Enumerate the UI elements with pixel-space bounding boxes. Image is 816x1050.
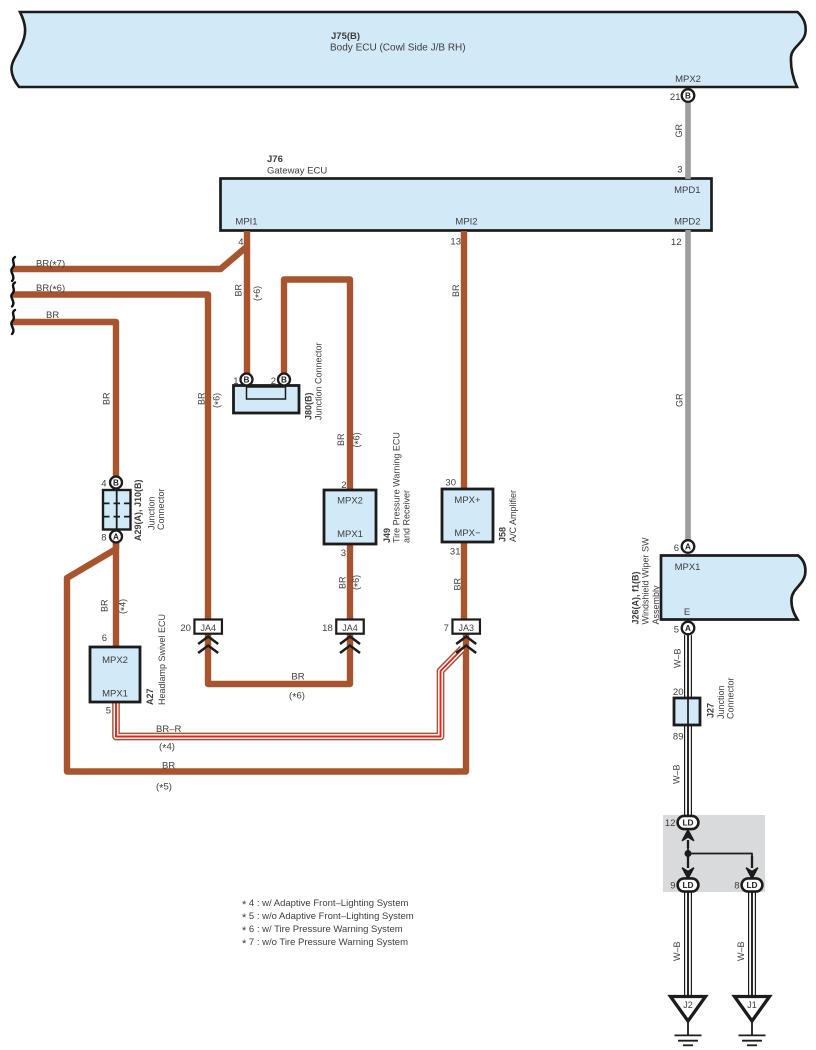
- svg-text:MPX+: MPX+: [454, 495, 481, 506]
- svg-text:LD: LD: [682, 880, 693, 890]
- svg-text:JA4: JA4: [200, 623, 216, 633]
- svg-text:4: 4: [101, 479, 106, 490]
- svg-text:GR: GR: [674, 123, 684, 137]
- svg-text:A/C Amplifier: A/C Amplifier: [508, 490, 518, 542]
- svg-text:J1: J1: [747, 1000, 757, 1010]
- svg-text:BR: BR: [197, 392, 207, 405]
- svg-text:MPI2: MPI2: [455, 217, 477, 228]
- svg-text:BR: BR: [338, 576, 348, 589]
- svg-text:W–B: W–B: [672, 941, 682, 961]
- svg-text:Connector: Connector: [156, 488, 166, 530]
- svg-text:and Receiver: and Receiver: [402, 490, 412, 543]
- svg-text:BR: BR: [234, 283, 244, 296]
- svg-text:MPX2: MPX2: [675, 74, 701, 85]
- svg-text:E: E: [684, 607, 690, 618]
- svg-text:W–B: W–B: [672, 764, 682, 784]
- svg-text:MPI1: MPI1: [235, 217, 257, 228]
- svg-text:Gateway ECU: Gateway ECU: [267, 166, 327, 177]
- svg-text:LD: LD: [682, 818, 693, 828]
- svg-text:3: 3: [341, 548, 346, 559]
- svg-text:MPD1: MPD1: [674, 185, 700, 196]
- svg-text:6: 6: [102, 633, 107, 644]
- svg-text:GR: GR: [675, 393, 685, 407]
- svg-text:A: A: [685, 624, 691, 633]
- svg-text:Windshield Wiper SW: Windshield Wiper SW: [641, 537, 651, 625]
- svg-text:1: 1: [233, 376, 238, 387]
- svg-text:J49: J49: [382, 528, 392, 543]
- svg-text:W–B: W–B: [736, 941, 746, 961]
- svg-text:8: 8: [734, 881, 739, 892]
- svg-text:MPX2: MPX2: [337, 496, 363, 507]
- svg-text:5: 5: [106, 706, 111, 717]
- svg-text:Connector: Connector: [726, 677, 736, 719]
- svg-text:JA4: JA4: [342, 623, 358, 633]
- svg-text:Junction: Junction: [147, 496, 157, 530]
- svg-text:BR: BR: [162, 761, 175, 772]
- svg-text:BR: BR: [102, 392, 112, 405]
- svg-text:A: A: [685, 543, 691, 552]
- svg-text:3: 3: [677, 165, 682, 176]
- svg-text:BR: BR: [100, 599, 110, 612]
- svg-text:6: 6: [674, 543, 679, 554]
- svg-text:13: 13: [450, 237, 461, 248]
- svg-text:2: 2: [271, 376, 276, 387]
- svg-text:B: B: [281, 376, 287, 385]
- svg-text:Body ECU (Cowl Side J/B RH): Body ECU (Cowl Side J/B RH): [330, 43, 466, 54]
- svg-text:MPD2: MPD2: [674, 217, 700, 228]
- svg-text:12: 12: [671, 237, 682, 248]
- svg-text:J26(A), f1(B): J26(A), f1(B): [631, 571, 641, 624]
- svg-text:Assembly: Assembly: [651, 585, 661, 625]
- svg-text:A: A: [113, 533, 119, 542]
- svg-text:4: 4: [238, 237, 243, 248]
- svg-text:89: 89: [673, 732, 684, 743]
- svg-text:MPX1: MPX1: [675, 562, 701, 573]
- svg-text:7: 7: [444, 623, 449, 634]
- svg-text:B: B: [244, 376, 250, 385]
- svg-text:MPX−: MPX−: [454, 528, 481, 539]
- svg-text:8: 8: [101, 533, 106, 544]
- svg-text:31: 31: [450, 547, 461, 558]
- svg-text:2: 2: [341, 480, 346, 491]
- svg-text:J27: J27: [706, 703, 716, 718]
- svg-text:A27: A27: [145, 688, 155, 705]
- svg-text:BR–R: BR–R: [156, 724, 181, 735]
- svg-text:Junction: Junction: [716, 685, 726, 719]
- svg-text:J2: J2: [683, 1000, 693, 1010]
- svg-text:5: 5: [674, 625, 679, 636]
- svg-text:20: 20: [180, 623, 191, 634]
- svg-text:12: 12: [665, 818, 676, 829]
- svg-text:MPX1: MPX1: [102, 689, 128, 700]
- svg-text:W–B: W–B: [673, 648, 683, 668]
- svg-text:BR: BR: [453, 577, 463, 590]
- svg-text:BR: BR: [336, 433, 346, 446]
- svg-text:MPX2: MPX2: [102, 655, 128, 666]
- svg-text:J58: J58: [498, 527, 508, 542]
- svg-text:BR: BR: [291, 672, 304, 683]
- svg-text:JA3: JA3: [458, 623, 474, 633]
- svg-text:B: B: [685, 92, 691, 101]
- svg-text:J75(B): J75(B): [331, 31, 360, 42]
- svg-text:A29(A), J10(B): A29(A), J10(B): [133, 479, 143, 541]
- svg-text:BR: BR: [451, 284, 461, 297]
- svg-text:21: 21: [670, 92, 681, 103]
- svg-text:Junction Connector: Junction Connector: [314, 342, 324, 420]
- svg-text:Tire Pressure Warning ECU: Tire Pressure Warning ECU: [392, 432, 402, 543]
- svg-text:18: 18: [322, 623, 333, 634]
- svg-text:BR: BR: [46, 310, 59, 321]
- svg-text:9: 9: [670, 881, 675, 892]
- svg-text:J80(B): J80(B): [304, 392, 314, 420]
- svg-text:30: 30: [445, 478, 456, 489]
- svg-text:20: 20: [673, 687, 684, 698]
- svg-text:LD: LD: [746, 880, 757, 890]
- svg-text:B: B: [113, 479, 119, 488]
- svg-text:Headlamp Swivel ECU: Headlamp Swivel ECU: [157, 614, 167, 705]
- svg-text:MPX1: MPX1: [337, 529, 363, 540]
- svg-text:J76: J76: [267, 154, 283, 165]
